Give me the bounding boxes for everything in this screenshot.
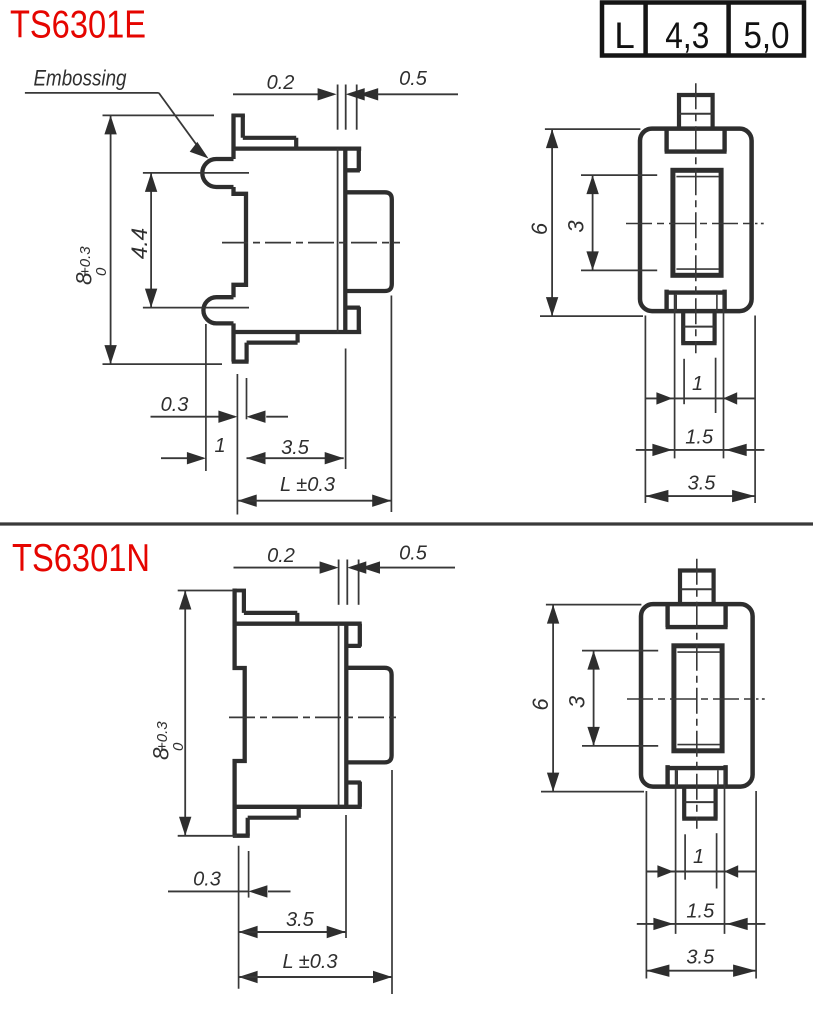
svg-text:0: 0 [93,267,110,276]
svg-text:TS6301N: TS6301N [12,537,150,580]
svg-text:1.5: 1.5 [685,427,714,449]
svg-text:6: 6 [527,222,552,235]
svg-text:1: 1 [693,846,704,868]
svg-text:3.5: 3.5 [286,909,315,931]
svg-text:4.4: 4.4 [127,228,152,259]
svg-text:0.5: 0.5 [399,543,428,565]
svg-text:0.2: 0.2 [267,72,295,94]
svg-text:3: 3 [564,220,589,233]
svg-text:5,0: 5,0 [744,15,790,56]
svg-text:L: L [614,15,635,56]
svg-text:3.5: 3.5 [281,437,310,459]
svg-text:0.5: 0.5 [399,68,428,90]
svg-text:0.2: 0.2 [267,545,295,567]
svg-text:L ±0.3: L ±0.3 [280,474,335,496]
svg-text:1.5: 1.5 [686,901,715,923]
svg-text:+0.3: +0.3 [154,721,171,751]
svg-text:3.5: 3.5 [688,473,717,495]
svg-text:1: 1 [214,435,225,457]
svg-text:Embossing: Embossing [34,66,128,91]
svg-text:3.5: 3.5 [686,947,715,969]
svg-text:6: 6 [528,698,553,711]
svg-text:0.3: 0.3 [193,869,221,891]
svg-text:TS6301E: TS6301E [10,4,146,47]
svg-text:L ±0.3: L ±0.3 [282,951,337,973]
svg-text:1: 1 [692,373,703,395]
svg-text:3: 3 [565,695,590,708]
svg-text:+0.3: +0.3 [77,246,94,276]
svg-text:4,3: 4,3 [665,15,709,56]
svg-text:0: 0 [170,742,187,751]
svg-text:0.3: 0.3 [161,394,189,416]
